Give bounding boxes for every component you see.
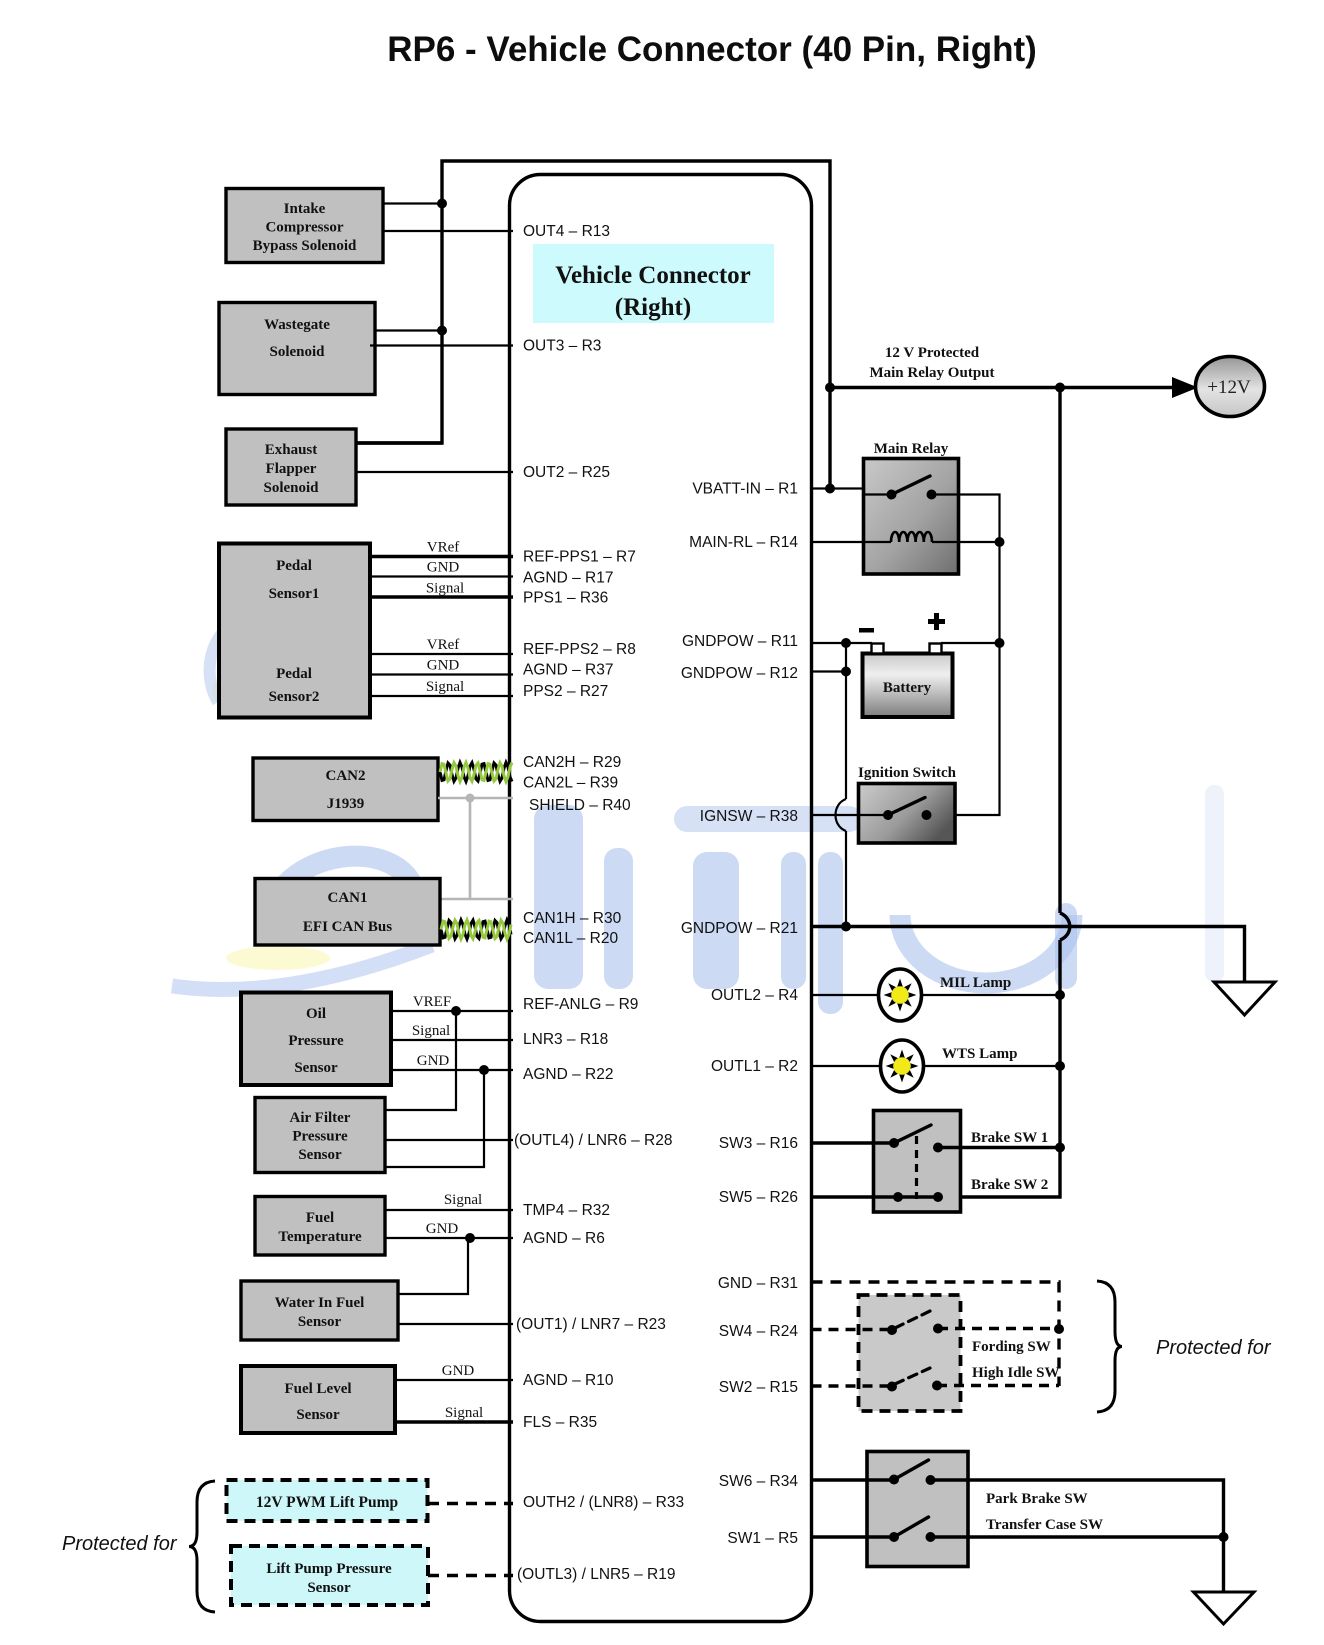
svg-text:Fuel: Fuel	[306, 1210, 334, 1226]
svg-text:MAIN-RL – R14: MAIN-RL – R14	[689, 534, 798, 551]
wire Signal oil	[391, 1039, 513, 1041]
svg-text:Compressor: Compressor	[265, 220, 343, 236]
Lift Pump Pressure Sensor box	[231, 1546, 428, 1605]
junction VREF bus	[451, 1006, 461, 1016]
svg-text:IGNSW – R38: IGNSW – R38	[700, 808, 798, 825]
svg-text:J1939: J1939	[327, 796, 365, 812]
lamp WTS	[881, 1040, 924, 1092]
svg-text:TMP4 – R32: TMP4 – R32	[523, 1202, 610, 1219]
twisted pair CAN2	[440, 763, 512, 782]
svg-text:FLS – R35: FLS – R35	[523, 1414, 597, 1431]
twisted pair CAN1	[441, 920, 511, 939]
svg-text:GNDPOW – R11: GNDPOW – R11	[682, 633, 798, 650]
park brake switch blade	[894, 1460, 929, 1480]
wire intake solenoid supply	[383, 202, 442, 204]
wire GND oil	[391, 1069, 513, 1071]
svg-text:SW2 – R15: SW2 – R15	[719, 1379, 798, 1396]
svg-text:SW3 – R16: SW3 – R16	[719, 1135, 798, 1152]
junction fuel temp GND	[465, 1233, 475, 1243]
svg-text:Intake: Intake	[284, 201, 326, 217]
svg-text:SW6 – R34: SW6 – R34	[719, 1473, 799, 1490]
svg-text:Pedal: Pedal	[276, 558, 312, 574]
wire OUTL4/LNR6	[385, 1139, 513, 1141]
wire SW5	[812, 1195, 939, 1198]
wire +12V main relay output	[830, 386, 1188, 389]
wire to ground bottom	[1222, 1537, 1225, 1592]
wire Signal pedal1	[370, 595, 513, 598]
ground symbol bottom	[1194, 1592, 1255, 1624]
battery plus sign	[928, 613, 945, 630]
svg-text:CAN2H – R29: CAN2H – R29	[523, 754, 621, 771]
svg-text:Pedal: Pedal	[276, 666, 312, 682]
svg-text:GND: GND	[417, 1053, 450, 1069]
svg-text:Exhaust: Exhaust	[265, 442, 318, 458]
CAN1 EFI CAN Bus box	[255, 879, 440, 946]
svg-text:CAN2L – R39: CAN2L – R39	[523, 775, 618, 792]
wire OUT3	[370, 344, 513, 346]
svg-text:Signal: Signal	[426, 581, 464, 597]
svg-text:(OUT1) / LNR7 – R23: (OUT1) / LNR7 – R23	[516, 1316, 666, 1333]
wire GNDPOW R12	[812, 670, 847, 672]
svg-text:AGND – R10: AGND – R10	[523, 1372, 614, 1389]
relay switch blade	[892, 476, 931, 495]
battery minus sign	[859, 628, 874, 633]
svg-text:PPS1 – R36: PPS1 – R36	[523, 590, 608, 607]
park brake switch contacts	[889, 1475, 936, 1486]
svg-text:Transfer Case SW: Transfer Case SW	[986, 1517, 1103, 1533]
junction at wastegate top wire	[437, 326, 447, 336]
junction GND bus R11	[841, 638, 851, 648]
svg-text:Bypass Solenoid: Bypass Solenoid	[253, 238, 357, 254]
junction +12V bus	[825, 383, 835, 393]
wire Signal pedal2	[370, 695, 513, 697]
wire high idle output dashed	[937, 1384, 1059, 1387]
wire OUTL3 dashed	[428, 1574, 513, 1577]
wire air filter to AGND bus	[385, 1070, 484, 1167]
svg-text:GND: GND	[427, 658, 460, 674]
wire OUT2	[356, 471, 513, 473]
svg-text:AGND – R22: AGND – R22	[523, 1066, 613, 1083]
svg-text:Protected for: Protected for	[62, 1533, 178, 1555]
park/transfer switch box	[867, 1452, 968, 1567]
svg-text:Wastegate: Wastegate	[264, 317, 330, 333]
wire OUTL2	[812, 994, 880, 996]
svg-text:VREF: VREF	[413, 994, 451, 1010]
svg-text:Signal: Signal	[445, 1405, 483, 1421]
svg-text:(OUTL3) / LNR5 – R19: (OUTL3) / LNR5 – R19	[517, 1566, 676, 1583]
svg-text:(Right): (Right)	[615, 294, 691, 321]
wire exhaust solenoid supply	[356, 441, 442, 444]
svg-text:CAN1L – R20: CAN1L – R20	[523, 930, 618, 947]
wire GNDPOW R21 to ground	[812, 927, 1245, 983]
svg-text:+12V: +12V	[1207, 377, 1251, 398]
wire SW1	[812, 1535, 895, 1538]
svg-text:Ignition Switch: Ignition Switch	[858, 765, 957, 781]
junction coil bus	[995, 537, 1005, 547]
relay switch contacts	[887, 490, 937, 500]
junction at intake top wire	[437, 199, 447, 209]
svg-text:REF-ANLG – R9: REF-ANLG – R9	[523, 996, 638, 1013]
wire SW4 dashed	[812, 1328, 893, 1331]
battery minus terminal	[872, 644, 884, 654]
svg-text:12 V Protected: 12 V Protected	[885, 345, 980, 361]
junction brake SW1 bus	[1055, 1143, 1065, 1153]
12V PWM Lift Pump box	[227, 1480, 428, 1521]
wire OUT4	[383, 230, 513, 232]
svg-text:GND: GND	[426, 1221, 459, 1237]
svg-text:SW4 – R24: SW4 – R24	[719, 1323, 799, 1340]
wire coil to bus	[932, 541, 1000, 543]
svg-text:Fuel Level: Fuel Level	[284, 1381, 351, 1397]
svg-text:Brake SW 1: Brake SW 1	[971, 1130, 1048, 1146]
junction park/transfer ground	[1219, 1532, 1229, 1542]
svg-text:VRef: VRef	[427, 540, 460, 556]
brake SW1 blade	[894, 1125, 931, 1143]
svg-text:Flapper: Flapper	[266, 461, 317, 477]
junction VBATT loop	[825, 484, 835, 494]
svg-text:Signal: Signal	[444, 1192, 482, 1208]
wire VRef pedal2	[370, 653, 513, 655]
brake SW1 contacts	[889, 1138, 943, 1153]
brake SW2 contacts	[893, 1192, 943, 1202]
svg-text:WTS Lamp: WTS Lamp	[942, 1046, 1017, 1062]
solenoid: Intake Compressor Bypass Solenoid	[226, 189, 383, 263]
wire water-in-fuel to GND bus	[398, 1238, 468, 1294]
svg-text:GND: GND	[427, 560, 460, 576]
fording/high-idle switch box dashed	[859, 1295, 961, 1411]
fording switch contacts	[887, 1324, 943, 1336]
transfer case switch contacts	[889, 1532, 936, 1542]
wire park brake output	[931, 1480, 1224, 1537]
wire IGNSW	[812, 814, 889, 816]
junction +12V lamp bus	[1055, 383, 1065, 393]
svg-text:OUTH2 / (LNR8) – R33: OUTH2 / (LNR8) – R33	[523, 1494, 684, 1511]
wire SW6	[812, 1478, 895, 1481]
ignition switch contacts	[883, 810, 932, 820]
label box: Vehicle Connector (Right)	[533, 244, 774, 323]
solenoid: Exhaust Flapper Solenoid	[226, 429, 356, 505]
battery plus terminal	[930, 644, 942, 654]
watermark	[172, 621, 1224, 1014]
high idle switch contacts	[887, 1381, 942, 1392]
svg-text:12V PWM Lift Pump: 12V PWM Lift Pump	[256, 1494, 398, 1511]
wire GND pedal1	[370, 575, 513, 577]
svg-text:High Idle SW: High Idle SW	[972, 1365, 1060, 1381]
svg-text:SW1 – R5: SW1 – R5	[727, 1530, 798, 1547]
svg-text:Oil: Oil	[306, 1006, 326, 1022]
svg-text:SW5 – R26: SW5 – R26	[719, 1189, 798, 1206]
svg-text:Pressure: Pressure	[288, 1033, 344, 1049]
wire SW3	[812, 1141, 895, 1144]
wire MIL to bus	[922, 994, 1061, 996]
solenoid: Wastegate Solenoid	[219, 303, 375, 395]
wire GND fuel level	[395, 1379, 513, 1381]
svg-text:Main Relay Output: Main Relay Output	[869, 365, 994, 381]
svg-text:Sensor: Sensor	[298, 1314, 342, 1330]
svg-text:Fording SW: Fording SW	[972, 1339, 1051, 1355]
junction AGND bus	[479, 1065, 489, 1075]
pedal sensor box (Sensor1 / Sensor2)	[219, 544, 370, 718]
wire fording output dashed	[938, 1327, 1059, 1330]
svg-text:Solenoid: Solenoid	[263, 480, 319, 496]
air filter pressure sensor box	[255, 1098, 385, 1173]
wire battery plus to bus	[941, 642, 1000, 644]
wire GND R31 dashed	[812, 1282, 1060, 1386]
svg-text:OUT4 – R13: OUT4 – R13	[523, 223, 610, 240]
junction GND bus R12	[841, 667, 851, 677]
svg-text:Air Filter: Air Filter	[290, 1110, 351, 1126]
fuel temperature sensor box	[255, 1197, 385, 1256]
svg-text:CAN1: CAN1	[328, 890, 368, 906]
label 12 V Protected Main Relay Output	[869, 345, 994, 381]
svg-text:SHIELD – R40: SHIELD – R40	[529, 797, 631, 814]
arrowhead +12V	[1172, 377, 1198, 398]
svg-text:(OUTL4) / LNR6 – R28: (OUTL4) / LNR6 – R28	[514, 1132, 673, 1149]
svg-text:LNR3 – R18: LNR3 – R18	[523, 1031, 608, 1048]
svg-text:Sensor: Sensor	[307, 1580, 351, 1596]
wire OUTH2 dashed	[428, 1502, 513, 1505]
svg-text:REF-PPS1 – R7: REF-PPS1 – R7	[523, 549, 636, 566]
svg-text:OUTL1 – R2: OUTL1 – R2	[711, 1058, 798, 1075]
svg-text:Signal: Signal	[426, 679, 464, 695]
wire shield CAN2	[438, 797, 513, 800]
ignition switch blade	[888, 798, 925, 816]
wire GNDPOW R11	[812, 642, 873, 644]
shield junction	[466, 794, 475, 803]
wire Signal fuel level	[395, 1420, 513, 1423]
svg-text:VRef: VRef	[427, 637, 460, 653]
svg-text:Temperature: Temperature	[278, 1229, 362, 1245]
svg-text:Sensor: Sensor	[296, 1407, 340, 1423]
hop lamp bus over R21	[1060, 913, 1070, 940]
wire MAIN-RL coil row	[812, 541, 892, 543]
brake switch box	[874, 1111, 961, 1213]
wire GND bus vertical	[845, 643, 847, 927]
svg-text:GNDPOW – R21: GNDPOW – R21	[681, 920, 798, 937]
fuel level sensor box	[241, 1366, 395, 1433]
svg-text:CAN1H – R30: CAN1H – R30	[523, 910, 622, 927]
junction battery plus bus	[995, 638, 1005, 648]
wire transfer case output	[931, 1535, 1224, 1538]
svg-text:OUT3 – R3: OUT3 – R3	[523, 338, 601, 355]
svg-text:Lift Pump Pressure: Lift Pump Pressure	[266, 1561, 392, 1577]
wire VREF oil	[391, 1010, 513, 1012]
svg-text:VBATT-IN – R1: VBATT-IN – R1	[692, 481, 798, 498]
svg-text:REF-PPS2 – R8: REF-PPS2 – R8	[523, 641, 636, 658]
svg-text:Sensor1: Sensor1	[269, 586, 320, 602]
wire Signal fuel temp	[385, 1209, 513, 1211]
switch: Ignition Switch	[858, 765, 957, 843]
junction fording bus	[1054, 1324, 1064, 1334]
relay K1: Main Relay	[864, 441, 959, 574]
svg-text:Main Relay: Main Relay	[874, 441, 949, 457]
junction WTS bus	[1055, 1061, 1065, 1071]
svg-text:GNDPOW – R12: GNDPOW – R12	[681, 665, 798, 682]
wire GND fuel temp	[385, 1237, 513, 1239]
svg-text:Sensor2: Sensor2	[269, 689, 320, 705]
svg-text:Park Brake SW: Park Brake SW	[986, 1491, 1088, 1507]
junction GND bus at R21	[841, 922, 851, 932]
fording switch blade dashed	[895, 1311, 930, 1328]
shield bus wire	[441, 798, 513, 899]
wire air filter to VREF bus	[385, 1011, 456, 1110]
svg-text:GND: GND	[442, 1363, 475, 1379]
svg-text:Sensor: Sensor	[298, 1147, 342, 1163]
wire SW2 dashed	[812, 1384, 893, 1387]
svg-text:Brake SW 2: Brake SW 2	[971, 1177, 1048, 1193]
svg-text:GND – R31: GND – R31	[718, 1275, 798, 1292]
vehicle connector outline	[510, 175, 812, 1622]
lamp MIL	[879, 969, 922, 1021]
svg-text:Pressure: Pressure	[292, 1129, 348, 1145]
brake gang link dashed	[915, 1136, 918, 1199]
wire brake SW1 output	[938, 1146, 1060, 1149]
node +12V	[1196, 357, 1265, 417]
wire lamp bus vertical	[938, 388, 1060, 1198]
transfer case switch blade	[894, 1517, 929, 1537]
svg-text:Vehicle Connector: Vehicle Connector	[555, 262, 751, 289]
wire VBATT feed loop	[356, 161, 830, 489]
CAN2 J1939 box	[253, 758, 438, 821]
wire OUT1/LNR7	[398, 1323, 513, 1325]
wire VRef pedal1	[370, 555, 513, 558]
relay coil	[891, 532, 932, 542]
high idle switch blade dashed	[895, 1368, 930, 1384]
wire VBATT-IN	[812, 489, 892, 495]
brace left protected group	[189, 1481, 215, 1612]
wire battery plus bus vertical	[927, 542, 1000, 815]
oil pressure sensor box	[241, 993, 391, 1086]
svg-text:CAN2: CAN2	[326, 768, 366, 784]
svg-text:OUTL2 – R4: OUTL2 – R4	[711, 987, 798, 1004]
wire relay switch output	[932, 495, 1000, 543]
wire GND pedal2	[370, 673, 513, 675]
svg-text:OUT2 – R25: OUT2 – R25	[523, 464, 610, 481]
wire OUTL1	[812, 1065, 882, 1067]
wire wastegate solenoid supply	[375, 329, 442, 331]
svg-text:Solenoid: Solenoid	[269, 344, 325, 360]
water in fuel sensor box	[241, 1281, 398, 1340]
svg-text:AGND – R17: AGND – R17	[523, 570, 613, 587]
svg-text:Water In Fuel: Water In Fuel	[275, 1295, 365, 1311]
battery B1	[863, 654, 953, 718]
svg-text:EFI CAN Bus: EFI CAN Bus	[303, 919, 392, 935]
svg-text:Protected for: Protected for	[1156, 1337, 1272, 1359]
svg-text:AGND – R6: AGND – R6	[523, 1230, 605, 1247]
brace right protected group	[1097, 1281, 1122, 1412]
wire WTS to bus	[924, 1065, 1061, 1067]
svg-text:Signal: Signal	[412, 1023, 450, 1039]
hop GND bus over IGNSW	[836, 799, 847, 831]
svg-text:MIL Lamp: MIL Lamp	[940, 975, 1011, 991]
svg-text:AGND – R37: AGND – R37	[523, 662, 613, 679]
svg-text:PPS2 – R27: PPS2 – R27	[523, 683, 608, 700]
svg-text:RP6 - Vehicle Connector (40 Pi: RP6 - Vehicle Connector (40 Pin, Right)	[387, 30, 1037, 69]
svg-text:Sensor: Sensor	[294, 1060, 338, 1076]
junction MIL bus	[1055, 990, 1065, 1000]
svg-text:Battery: Battery	[883, 680, 932, 696]
ground symbol right	[1214, 982, 1275, 1015]
